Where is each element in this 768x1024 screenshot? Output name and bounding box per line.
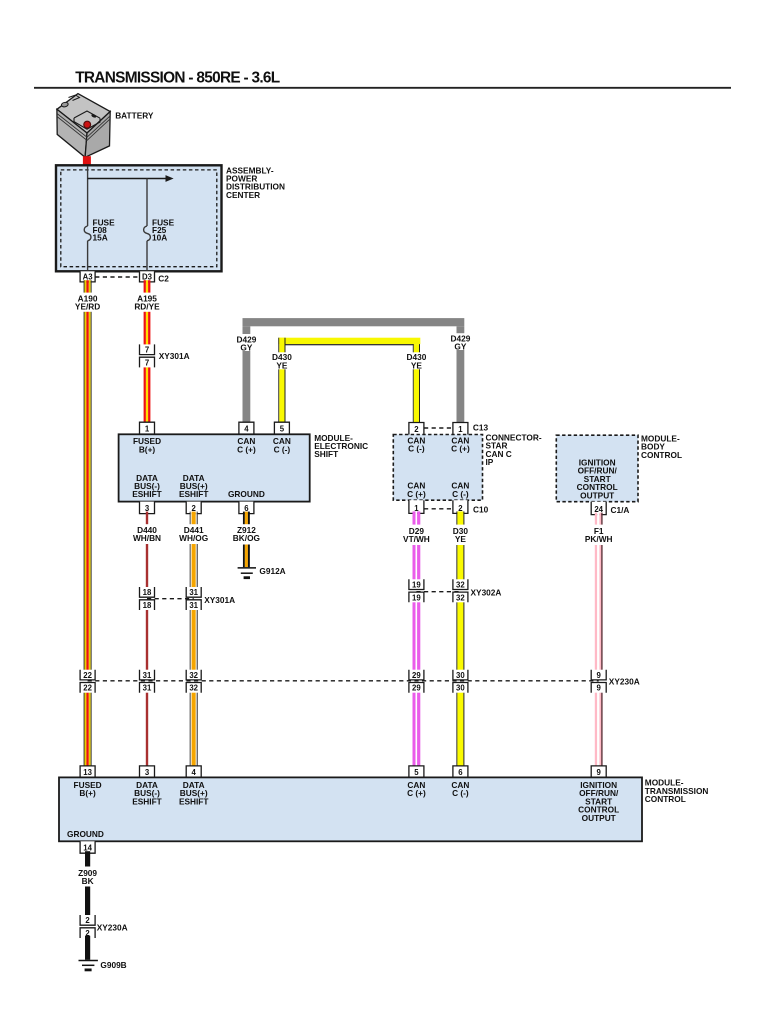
svg-text:XY301A: XY301A bbox=[159, 351, 190, 361]
svg-text:30: 30 bbox=[456, 671, 465, 680]
svg-text:29: 29 bbox=[412, 671, 421, 680]
connector star pin2b label bbox=[451, 481, 469, 499]
svg-text:22: 22 bbox=[83, 671, 92, 680]
module electronic shift pin4 label bbox=[237, 436, 256, 454]
wire Z909 label bbox=[78, 868, 97, 886]
module electronic shift box bbox=[119, 434, 310, 501]
module transmission control pin9 label bbox=[578, 780, 619, 823]
svg-text:G909B: G909B bbox=[100, 960, 126, 970]
module transmission control pin 6 bbox=[453, 766, 468, 778]
module transmission control pin 9 bbox=[591, 766, 606, 778]
svg-text:C (-): C (-) bbox=[408, 444, 425, 454]
wire D430 YE right label bbox=[406, 352, 426, 370]
module transmission control pin13 label bbox=[74, 780, 102, 798]
wire D429 GY left label bbox=[236, 334, 256, 352]
svg-text:B(+): B(+) bbox=[79, 788, 96, 798]
svg-text:D3: D3 bbox=[142, 272, 153, 281]
svg-text:C (+): C (+) bbox=[407, 788, 426, 798]
wire Z912 BK/OG bbox=[243, 512, 250, 568]
svg-text:C (-): C (-) bbox=[274, 444, 291, 454]
svg-text:31: 31 bbox=[189, 601, 198, 610]
svg-text:ESHIFT: ESHIFT bbox=[132, 796, 162, 806]
module transmission control pin 13 bbox=[80, 766, 95, 778]
wire D429 GY bus top bbox=[243, 318, 465, 326]
svg-text:RD/YE: RD/YE bbox=[134, 302, 160, 312]
connector XY302A pin 32 pair bbox=[453, 579, 468, 602]
wire D429 GY right leg bbox=[457, 326, 465, 424]
connector star pin2 label bbox=[407, 435, 425, 453]
svg-text:C1/A: C1/A bbox=[611, 505, 630, 515]
fuse F25 lower lead bbox=[146, 241, 148, 271]
svg-text:31: 31 bbox=[143, 671, 152, 680]
svg-text:YE: YE bbox=[411, 360, 423, 370]
module transmission control pin 14 bbox=[80, 841, 95, 853]
wire D429 GY left leg bbox=[243, 326, 251, 424]
wire D29 VT/WH bbox=[413, 511, 421, 768]
module electronic shift pin3 label bbox=[132, 473, 162, 499]
svg-text:BATTERY: BATTERY bbox=[115, 110, 154, 120]
svg-text:C (+): C (+) bbox=[407, 489, 426, 499]
connector C2 pin D3 bbox=[140, 271, 155, 282]
module transmission control pin 4 bbox=[186, 766, 201, 778]
svg-text:9: 9 bbox=[597, 671, 602, 680]
module electronic shift pin 5 bbox=[274, 422, 289, 434]
module electronic shift pin 3 bbox=[140, 502, 155, 514]
PDC arrow branch bbox=[88, 175, 174, 182]
svg-text:XY301A: XY301A bbox=[204, 595, 235, 605]
ground G909B symbol bbox=[79, 961, 98, 970]
connector star pin1 label bbox=[451, 435, 470, 453]
wire Z909 BK mid bbox=[85, 887, 90, 918]
svg-text:CENTER: CENTER bbox=[226, 190, 260, 200]
wire Z909 BK lower bbox=[85, 936, 90, 960]
svg-text:GROUND: GROUND bbox=[228, 489, 265, 499]
connector XY230A pin 31 pair bbox=[140, 670, 155, 693]
wire D430 YE bus top bbox=[278, 338, 420, 346]
svg-text:5: 5 bbox=[414, 768, 419, 777]
wire D30 YE bbox=[456, 511, 464, 768]
svg-text:32: 32 bbox=[189, 671, 198, 680]
svg-text:31: 31 bbox=[143, 684, 152, 693]
svg-text:XY230A: XY230A bbox=[97, 922, 128, 932]
svg-text:C (+): C (+) bbox=[237, 444, 256, 454]
page title bbox=[75, 69, 280, 86]
svg-text:6: 6 bbox=[458, 768, 463, 777]
svg-text:CONTROL: CONTROL bbox=[641, 450, 682, 460]
svg-text:VT/WH: VT/WH bbox=[403, 534, 430, 544]
svg-text:18: 18 bbox=[143, 601, 152, 610]
module transmission control pin 5 bbox=[409, 766, 424, 778]
connector star CAN C box bbox=[393, 435, 482, 501]
svg-text:1: 1 bbox=[145, 425, 150, 434]
svg-text:C2: C2 bbox=[158, 273, 169, 283]
module electronic shift name bbox=[314, 433, 368, 459]
fuse F25 element bbox=[144, 226, 151, 241]
svg-text:15A: 15A bbox=[93, 233, 108, 243]
connector XY230A pin 30 pair bbox=[453, 670, 468, 693]
svg-text:7: 7 bbox=[145, 358, 149, 367]
svg-text:19: 19 bbox=[412, 593, 421, 602]
svg-text:XY230A: XY230A bbox=[609, 676, 640, 686]
connector XY301A pin 7 pair bbox=[140, 344, 155, 367]
svg-text:22: 22 bbox=[83, 684, 92, 693]
connector XY230A pin 32 pair bbox=[186, 670, 201, 693]
module transmission control box bbox=[59, 777, 642, 841]
fuse F08 label bbox=[93, 218, 116, 243]
wire A195 label bbox=[134, 294, 160, 312]
connector C10 dashed link bbox=[416, 508, 460, 510]
svg-text:C (-): C (-) bbox=[452, 788, 469, 798]
connector XY301A dashed link bbox=[147, 598, 194, 600]
module electronic shift pin 4 bbox=[239, 422, 254, 434]
PDC label bbox=[226, 165, 285, 200]
svg-text:7: 7 bbox=[145, 346, 149, 355]
wire A190 YE/RD bbox=[84, 280, 92, 768]
svg-text:5: 5 bbox=[280, 425, 285, 434]
module electronic shift pin 1 bbox=[140, 422, 155, 434]
connector C10 pin 2 bbox=[453, 500, 468, 513]
wire D29 label bbox=[403, 526, 430, 544]
connector XY302A pin 19 pair bbox=[409, 579, 424, 602]
connector XY230A pin 29 pair bbox=[409, 670, 424, 693]
wire D430 YE left label bbox=[272, 352, 292, 370]
module electronic shift pin2 label bbox=[179, 473, 209, 499]
svg-text:GROUND: GROUND bbox=[67, 829, 104, 839]
module electronic shift pin5 label bbox=[273, 436, 291, 454]
svg-text:G912A: G912A bbox=[259, 566, 285, 576]
svg-text:WH/OG: WH/OG bbox=[179, 533, 208, 543]
svg-text:32: 32 bbox=[189, 684, 198, 693]
svg-text:13: 13 bbox=[83, 768, 92, 777]
wire D430 YE left leg bbox=[278, 338, 285, 424]
svg-text:C (-): C (-) bbox=[452, 489, 469, 499]
connector C10 pin 1 bbox=[409, 500, 424, 513]
svg-text:32: 32 bbox=[456, 581, 465, 590]
svg-text:GY: GY bbox=[240, 343, 252, 353]
svg-text:ESHIFT: ESHIFT bbox=[179, 489, 209, 499]
module transmission control name bbox=[645, 778, 709, 804]
wire Z912 label bbox=[233, 525, 260, 543]
module body control name bbox=[641, 434, 682, 460]
svg-text:YE: YE bbox=[455, 534, 467, 544]
svg-text:2: 2 bbox=[414, 425, 419, 434]
PDC inner dashed border bbox=[61, 170, 217, 267]
svg-text:3: 3 bbox=[145, 768, 150, 777]
wire D429 GY right label bbox=[450, 333, 470, 351]
svg-text:CONTROL: CONTROL bbox=[645, 794, 686, 804]
svg-text:IP: IP bbox=[486, 457, 494, 467]
svg-text:4: 4 bbox=[192, 768, 197, 777]
svg-text:C (+): C (+) bbox=[451, 444, 470, 454]
svg-text:18: 18 bbox=[143, 588, 152, 597]
svg-text:1: 1 bbox=[458, 425, 463, 434]
wire D441 WH/OG bbox=[190, 512, 198, 769]
svg-text:TRANSMISSION - 850RE - 3.6L: TRANSMISSION - 850RE - 3.6L bbox=[75, 69, 280, 86]
svg-text:ESHIFT: ESHIFT bbox=[179, 796, 209, 806]
svg-text:SHIFT: SHIFT bbox=[314, 449, 338, 459]
module transmission control pin6 label bbox=[451, 780, 469, 798]
svg-text:10A: 10A bbox=[152, 233, 167, 243]
svg-text:9: 9 bbox=[597, 768, 602, 777]
svg-text:BK/OG: BK/OG bbox=[233, 533, 260, 543]
svg-text:31: 31 bbox=[189, 588, 198, 597]
wire D30 label bbox=[453, 526, 469, 544]
fuse F08 lower lead bbox=[87, 241, 89, 271]
module transmission control pin4 label bbox=[179, 780, 209, 806]
svg-text:OUTPUT: OUTPUT bbox=[582, 813, 616, 823]
svg-text:YE: YE bbox=[276, 360, 288, 370]
svg-text:XY302A: XY302A bbox=[471, 587, 502, 597]
connector star name bbox=[486, 432, 542, 467]
svg-text:C13: C13 bbox=[473, 423, 489, 433]
module electronic shift pin 2 bbox=[186, 502, 201, 514]
wire Z909 BK upper bbox=[85, 851, 90, 866]
svg-text:B(+): B(+) bbox=[139, 444, 156, 454]
ground G912A symbol bbox=[238, 568, 256, 578]
connector XY302A dashed link bbox=[416, 591, 460, 593]
connector XY230A pin 9 pair bbox=[591, 670, 606, 693]
fuse F08 element bbox=[84, 226, 91, 241]
module transmission control pin 3 bbox=[140, 766, 155, 778]
connector XY230A dashed link bbox=[88, 680, 599, 682]
svg-text:4: 4 bbox=[244, 425, 249, 434]
svg-text:2: 2 bbox=[85, 916, 90, 925]
svg-text:GY: GY bbox=[454, 342, 466, 352]
module body control box bbox=[556, 435, 638, 502]
module transmission control pin3 label bbox=[132, 780, 162, 806]
title underline bbox=[34, 87, 731, 89]
connector C13 dashed link bbox=[416, 427, 460, 429]
svg-text:ESHIFT: ESHIFT bbox=[132, 489, 162, 499]
svg-text:OUTPUT: OUTPUT bbox=[580, 490, 614, 500]
svg-text:BK: BK bbox=[82, 876, 94, 886]
connector XY301A pin 31 pair bbox=[186, 587, 201, 610]
connector XY230A pin 22 pair bbox=[80, 670, 95, 693]
PDC branch line to fuse F25 bbox=[146, 179, 148, 227]
module electronic shift pin 6 bbox=[239, 502, 254, 514]
svg-text:30: 30 bbox=[456, 684, 465, 693]
connector XY301A pin 18 pair bbox=[140, 587, 155, 610]
connector XY230A pin 2 pair bbox=[80, 915, 95, 938]
connector C13 pin 2 bbox=[409, 423, 424, 435]
svg-text:PK/WH: PK/WH bbox=[585, 534, 613, 544]
wire D441 label bbox=[179, 525, 208, 543]
module electronic shift pin1 label bbox=[133, 436, 161, 454]
battery bbox=[57, 94, 110, 158]
svg-text:A3: A3 bbox=[83, 272, 94, 281]
svg-text:32: 32 bbox=[456, 593, 465, 602]
wire F1 PK/WH bbox=[595, 513, 603, 769]
wire A195 RD/YE bbox=[144, 280, 151, 424]
wire A190 label bbox=[75, 294, 100, 312]
wire F1 label bbox=[585, 526, 613, 544]
battery positive feed stub bbox=[83, 156, 91, 166]
wire D430 YE right leg bbox=[413, 344, 420, 424]
fuse F25 label bbox=[152, 218, 175, 243]
svg-text:WH/BN: WH/BN bbox=[133, 533, 161, 543]
connector C2 dashed link bbox=[88, 276, 147, 278]
svg-text:YE/RD: YE/RD bbox=[75, 302, 100, 312]
svg-text:C10: C10 bbox=[473, 504, 489, 514]
connector C2 pin A3 bbox=[80, 271, 95, 282]
PDC assembly box bbox=[56, 165, 222, 271]
connector C13 pin 1 bbox=[453, 423, 468, 435]
connector C1/A pin 24 bbox=[591, 502, 606, 515]
svg-text:19: 19 bbox=[412, 581, 421, 590]
svg-text:9: 9 bbox=[597, 684, 602, 693]
module transmission control pin5 label bbox=[407, 780, 426, 798]
wire D440 WH/BN bbox=[146, 512, 148, 769]
module body control output label bbox=[577, 458, 618, 501]
wire D440 label bbox=[133, 525, 161, 543]
svg-text:29: 29 bbox=[412, 684, 421, 693]
connector star pin1b label bbox=[407, 481, 426, 499]
PDC feed line from battery bbox=[87, 166, 89, 226]
